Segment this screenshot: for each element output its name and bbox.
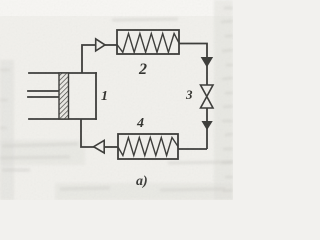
flow arrow (hollow, left) on suction line xyxy=(94,140,105,153)
wire arrow to condenser 2 xyxy=(105,44,118,46)
evaporator 4 coil zigzag xyxy=(118,138,178,156)
wire arrow to compressor bottom xyxy=(81,119,95,147)
compressor 1 hatched piston xyxy=(59,73,69,119)
wire valve 3 down xyxy=(206,108,208,149)
wire down to evaporator 4 inlet corner xyxy=(178,148,207,150)
flow arrow (filled, down) below valve xyxy=(202,121,212,129)
scan ghost text bottom-left xyxy=(0,19,233,190)
wire condenser 2 to right drop xyxy=(179,44,207,86)
throttle valve 3 upper triangle xyxy=(201,85,214,97)
compressor 1 cylinder top line xyxy=(29,72,96,74)
wire evaporator 4 outlet to arrow xyxy=(104,146,119,148)
condenser 2 body xyxy=(117,30,179,54)
compressor 1 cylinder bottom line xyxy=(29,118,96,120)
wire compressor top to arrow (suction->discharge) xyxy=(82,45,96,73)
condenser 2 coil zigzag xyxy=(117,34,179,53)
compressor 1 cylinder right edge xyxy=(95,73,97,119)
compressor 1 piston rod upper line xyxy=(28,90,59,92)
evaporator 4 body xyxy=(118,134,178,159)
compressor 1 piston rod lower line xyxy=(28,96,59,98)
scan ghost text right edge xyxy=(221,8,233,191)
paper noise overlay xyxy=(0,0,233,200)
flow arrow (hollow, right) on discharge line xyxy=(96,39,105,51)
flow arrow (filled, down) above valve xyxy=(201,57,212,67)
scan ghost left edge xyxy=(0,70,10,128)
throttle valve 3 lower triangle xyxy=(201,97,214,109)
